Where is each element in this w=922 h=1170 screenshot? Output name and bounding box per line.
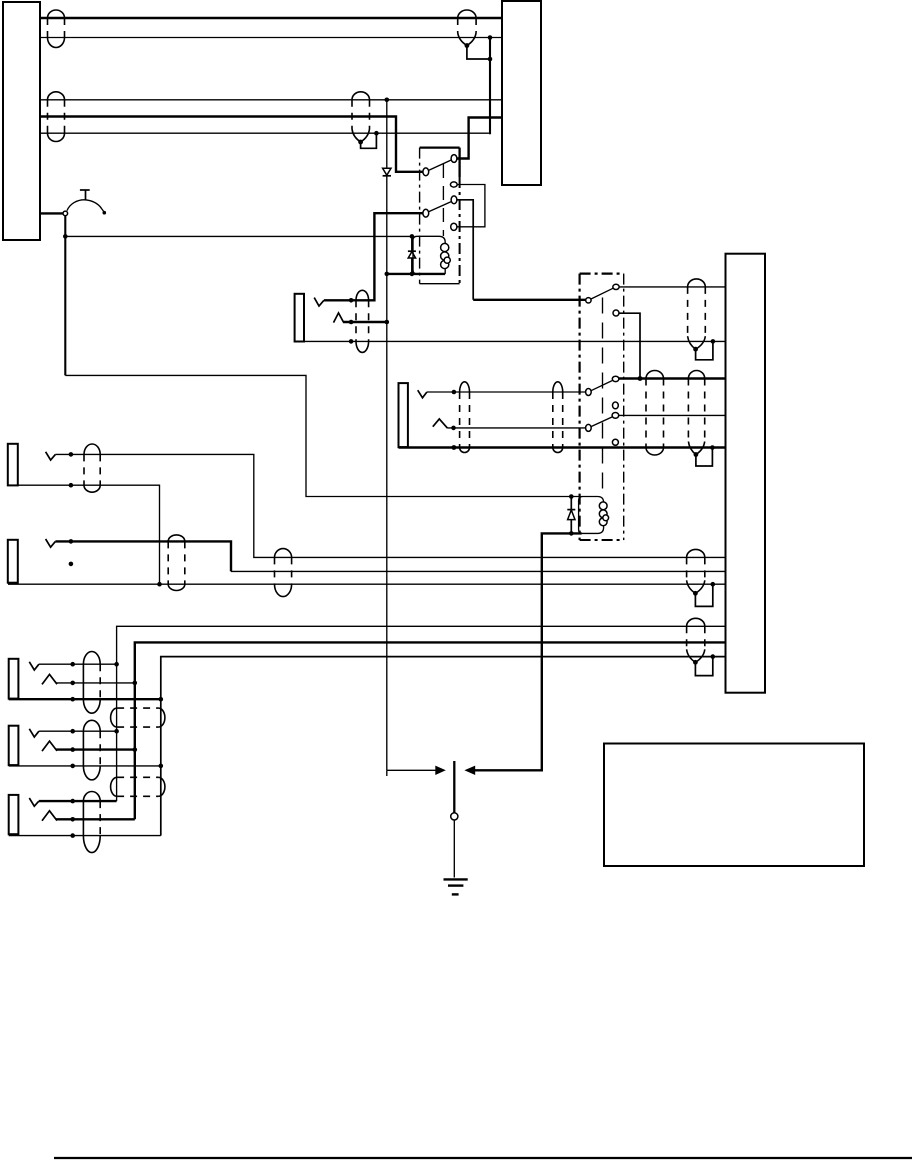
relay K1 mechanical link: [442, 164, 444, 236]
jack J2 ring contact: [433, 419, 448, 428]
shield drain to x490 riser: [467, 46, 492, 62]
circuit breaker CB1: [63, 190, 106, 216]
wire J5 tip: [39, 663, 117, 665]
wire J1 ring to bus x387: [343, 321, 387, 323]
wire bottom jacks tip bus to P3: [117, 626, 726, 801]
wire K1 NO2 down to relay K2 arm1: [457, 200, 586, 300]
wire K2 aux1 jog down to NO2 net: [619, 313, 640, 378]
shield oval J2 cable right: [553, 382, 563, 453]
jack J7 body: [9, 795, 19, 834]
shield oval mid K2 output group: [646, 371, 664, 456]
node J5 ring terminal: [70, 681, 75, 686]
node on vertical bus x387 at coil bottom: [385, 272, 390, 277]
node J2 tip terminal: [452, 390, 457, 395]
node J6 tip bus junction: [114, 729, 119, 734]
relay K2 enclosure: [580, 274, 624, 540]
node K2 coil bottom / diode CR3: [569, 531, 574, 536]
relay K2 aux2 contact: [613, 402, 619, 409]
node J6 sleeve bus junction: [159, 764, 164, 769]
wire P1 pin4 to relay K1 contact arm: [40, 117, 424, 172]
node J5 sleeve terminal: [70, 697, 75, 702]
wire P1 pin1 to P2 pin1: [40, 17, 502, 19]
arrow right of disconnect SW1: [464, 766, 475, 775]
relay K2 switch 1: [586, 284, 620, 303]
jack J6 body: [9, 726, 19, 765]
wire relay K1 coil top feed: [65, 235, 413, 237]
node J6 sleeve terminal: [70, 764, 75, 769]
node J7 tip terminal: [70, 799, 75, 804]
jack J2 body: [399, 383, 408, 447]
node J1 ring terminal: [349, 320, 354, 325]
wire K2 coil bottom to disconnect right arrow: [475, 533, 582, 770]
wire J3 tip to P3: [55, 454, 725, 557]
wire J1 sleeve to P3: [295, 340, 726, 342]
shield oval J4 cable right: [275, 549, 292, 597]
relay K2 switch 3: [586, 413, 619, 432]
jack J7 tip contact: [29, 798, 39, 806]
shield oval J7 cable: [83, 792, 100, 853]
wire J4 sleeve to P3: [8, 583, 726, 585]
wire bottom jacks sleeve bus to P3: [161, 657, 726, 836]
jack J2 tip contact: [418, 390, 427, 398]
shield drain to bottom sleeve bus: [695, 654, 715, 675]
jack J7 ring contact: [42, 811, 57, 821]
node J1 sleeve terminal: [349, 339, 354, 344]
shield oval grounded mid pair2: [352, 92, 370, 145]
relay K2 mechanical link: [602, 298, 604, 497]
relay K1 switch 2: [423, 196, 457, 217]
node J6 ring bus junction: [133, 747, 138, 752]
wire J7 ring: [56, 818, 135, 820]
wire to ground: [453, 820, 455, 878]
shield oval J2 cable left: [460, 382, 470, 453]
wire bottom jacks ring bus to P3: [135, 642, 726, 819]
node J1 tip terminal: [349, 298, 354, 303]
shield oval J6 cable: [83, 720, 100, 780]
wire K2 NO1 to P3: [619, 286, 725, 288]
wire K1 coil bottom: [387, 273, 445, 275]
wire J4 tip to P3: [55, 541, 725, 571]
wire J3 sleeve down to J4 sleeve: [18, 485, 160, 584]
wire J6 sleeve: [9, 765, 161, 767]
wire J6 tip: [39, 730, 117, 732]
shield oval grounded K2 output group: [688, 371, 704, 457]
arrow left of disconnect SW1: [435, 766, 446, 775]
switch contact circle: [451, 813, 458, 820]
wire J2 tip to relay K2 arm2: [427, 391, 586, 393]
jack J6 ring contact: [42, 741, 57, 751]
shield drain to pin5 wire: [361, 131, 379, 148]
shield oval cable P1 pair2: [48, 92, 65, 142]
wire P1 pin6 to breaker CB1: [40, 212, 63, 214]
shield oval J4 cable left: [168, 535, 185, 591]
relay K2 switch 2: [586, 376, 619, 395]
shield drain to J1 sleeve wire: [696, 339, 716, 360]
wire P1 pin5 up to pin2 net: [40, 38, 490, 135]
disconnect switch blade SW1: [453, 761, 455, 813]
node J2 ring terminal: [451, 426, 456, 431]
node J5 sleeve bus junction: [159, 697, 164, 702]
node J4 ring terminal (unconnected): [69, 562, 74, 567]
wire K2 NO3 to P3: [619, 414, 726, 416]
jack J4 body: [8, 540, 18, 583]
shield oval grounded bottom jack group: [687, 618, 705, 664]
shield oval grounded P3 pin1 group: [688, 279, 706, 352]
node J3 sleeve terminal: [69, 483, 74, 488]
relay K1 enclosure: [420, 148, 460, 284]
node junction on pin2 wire: [488, 35, 493, 40]
jack J4 tip contact: [46, 539, 56, 547]
node J5 tip terminal: [70, 662, 75, 667]
diode CR3 across K2 coil: [567, 497, 575, 534]
jack J1 tip contact: [314, 298, 324, 306]
wire P1 pin3 to P2 pin3: [40, 99, 502, 101]
wire bus x387 to disconnect arrow left: [387, 770, 436, 776]
wire relay K1 NO contact to P2 pin4: [457, 118, 503, 159]
relay K1 aux contacts tie: [450, 182, 485, 231]
jack J1 body: [295, 294, 304, 342]
node J6 tip terminal: [70, 729, 75, 734]
node J3-J4 sleeve junction: [157, 582, 162, 587]
shield oval cable P1 pair1: [48, 10, 65, 48]
node on K2 NO2 wire: [638, 376, 643, 381]
node K2 coil top / diode CR3: [569, 494, 574, 499]
node J4 tip terminal: [69, 539, 74, 544]
jack J5 ring contact: [42, 674, 57, 684]
shield oval J5 cable: [83, 652, 100, 714]
connector P2 (top right): [502, 1, 541, 185]
jack J1 ring contact: [334, 313, 344, 323]
jack J3 body: [8, 444, 18, 486]
wire J5 sleeve: [9, 698, 161, 700]
jack J5 tip contact: [29, 662, 39, 670]
shield oval J3 cable: [84, 444, 100, 492]
wire J1 tip up to relay K1 arm2: [324, 213, 424, 300]
shield drain to J4 sleeve wire: [695, 582, 715, 607]
footer rule: [54, 1157, 912, 1159]
wire J7 sleeve: [9, 835, 161, 837]
node J6 ring terminal: [70, 747, 75, 752]
node J1 ring on bus x387: [385, 320, 390, 325]
node J5 ring bus junction: [133, 681, 138, 686]
shield oval J1 cable: [356, 290, 369, 352]
relay K1 coil: [413, 236, 450, 274]
shield oval grounded J3 J4 group: [687, 549, 705, 595]
wire vertical bus x387 upper with diode CR2: [383, 100, 391, 771]
node J5 tip bus junction: [114, 662, 119, 667]
connector P3 (right): [726, 254, 766, 693]
node K1 coil top / diode CR1: [410, 234, 415, 239]
wire J2 sleeve to P3: [399, 446, 726, 448]
wire breaker CB1 down to relay coils feed: [65, 216, 581, 497]
node J7 sleeve terminal: [70, 833, 75, 838]
wire J6 ring: [56, 748, 135, 750]
shield drain to J2 sleeve wire: [696, 445, 715, 466]
relay K2 aux1 contact: [613, 310, 619, 316]
jack J6 tip contact: [29, 729, 39, 737]
node J7 ring terminal: [70, 817, 75, 822]
shield oval horizontal bus lower: [111, 777, 165, 796]
relay K1 switch 1: [423, 155, 457, 176]
wire J2 ring to relay K2 arm3: [448, 427, 587, 429]
node J3 tip terminal: [69, 452, 74, 457]
relay K2 aux3 contact: [612, 439, 618, 445]
relay K2 coil: [579, 497, 609, 534]
jack J5 body: [9, 659, 19, 699]
jack J3 tip contact: [46, 452, 56, 460]
notes box: [604, 744, 864, 867]
node junction vertical x386 on pin3 wire: [385, 98, 390, 103]
ground symbol: [444, 879, 468, 894]
node breaker tee: [63, 234, 68, 239]
wire P1 pin2 to P2 pin2: [40, 37, 502, 39]
node J2 sleeve terminal: [452, 445, 457, 450]
shield oval grounded near P2: [458, 10, 476, 48]
wire J7 tip: [39, 800, 117, 802]
diode CR1 across K1 coil: [408, 236, 416, 274]
wire K2 NO2 to P3: [619, 377, 726, 379]
connector P1 (left): [3, 2, 40, 240]
shield oval horizontal bus upper: [111, 708, 165, 727]
wire J5 ring: [56, 682, 135, 684]
node K1 coil bottom / diode CR1: [410, 272, 415, 277]
